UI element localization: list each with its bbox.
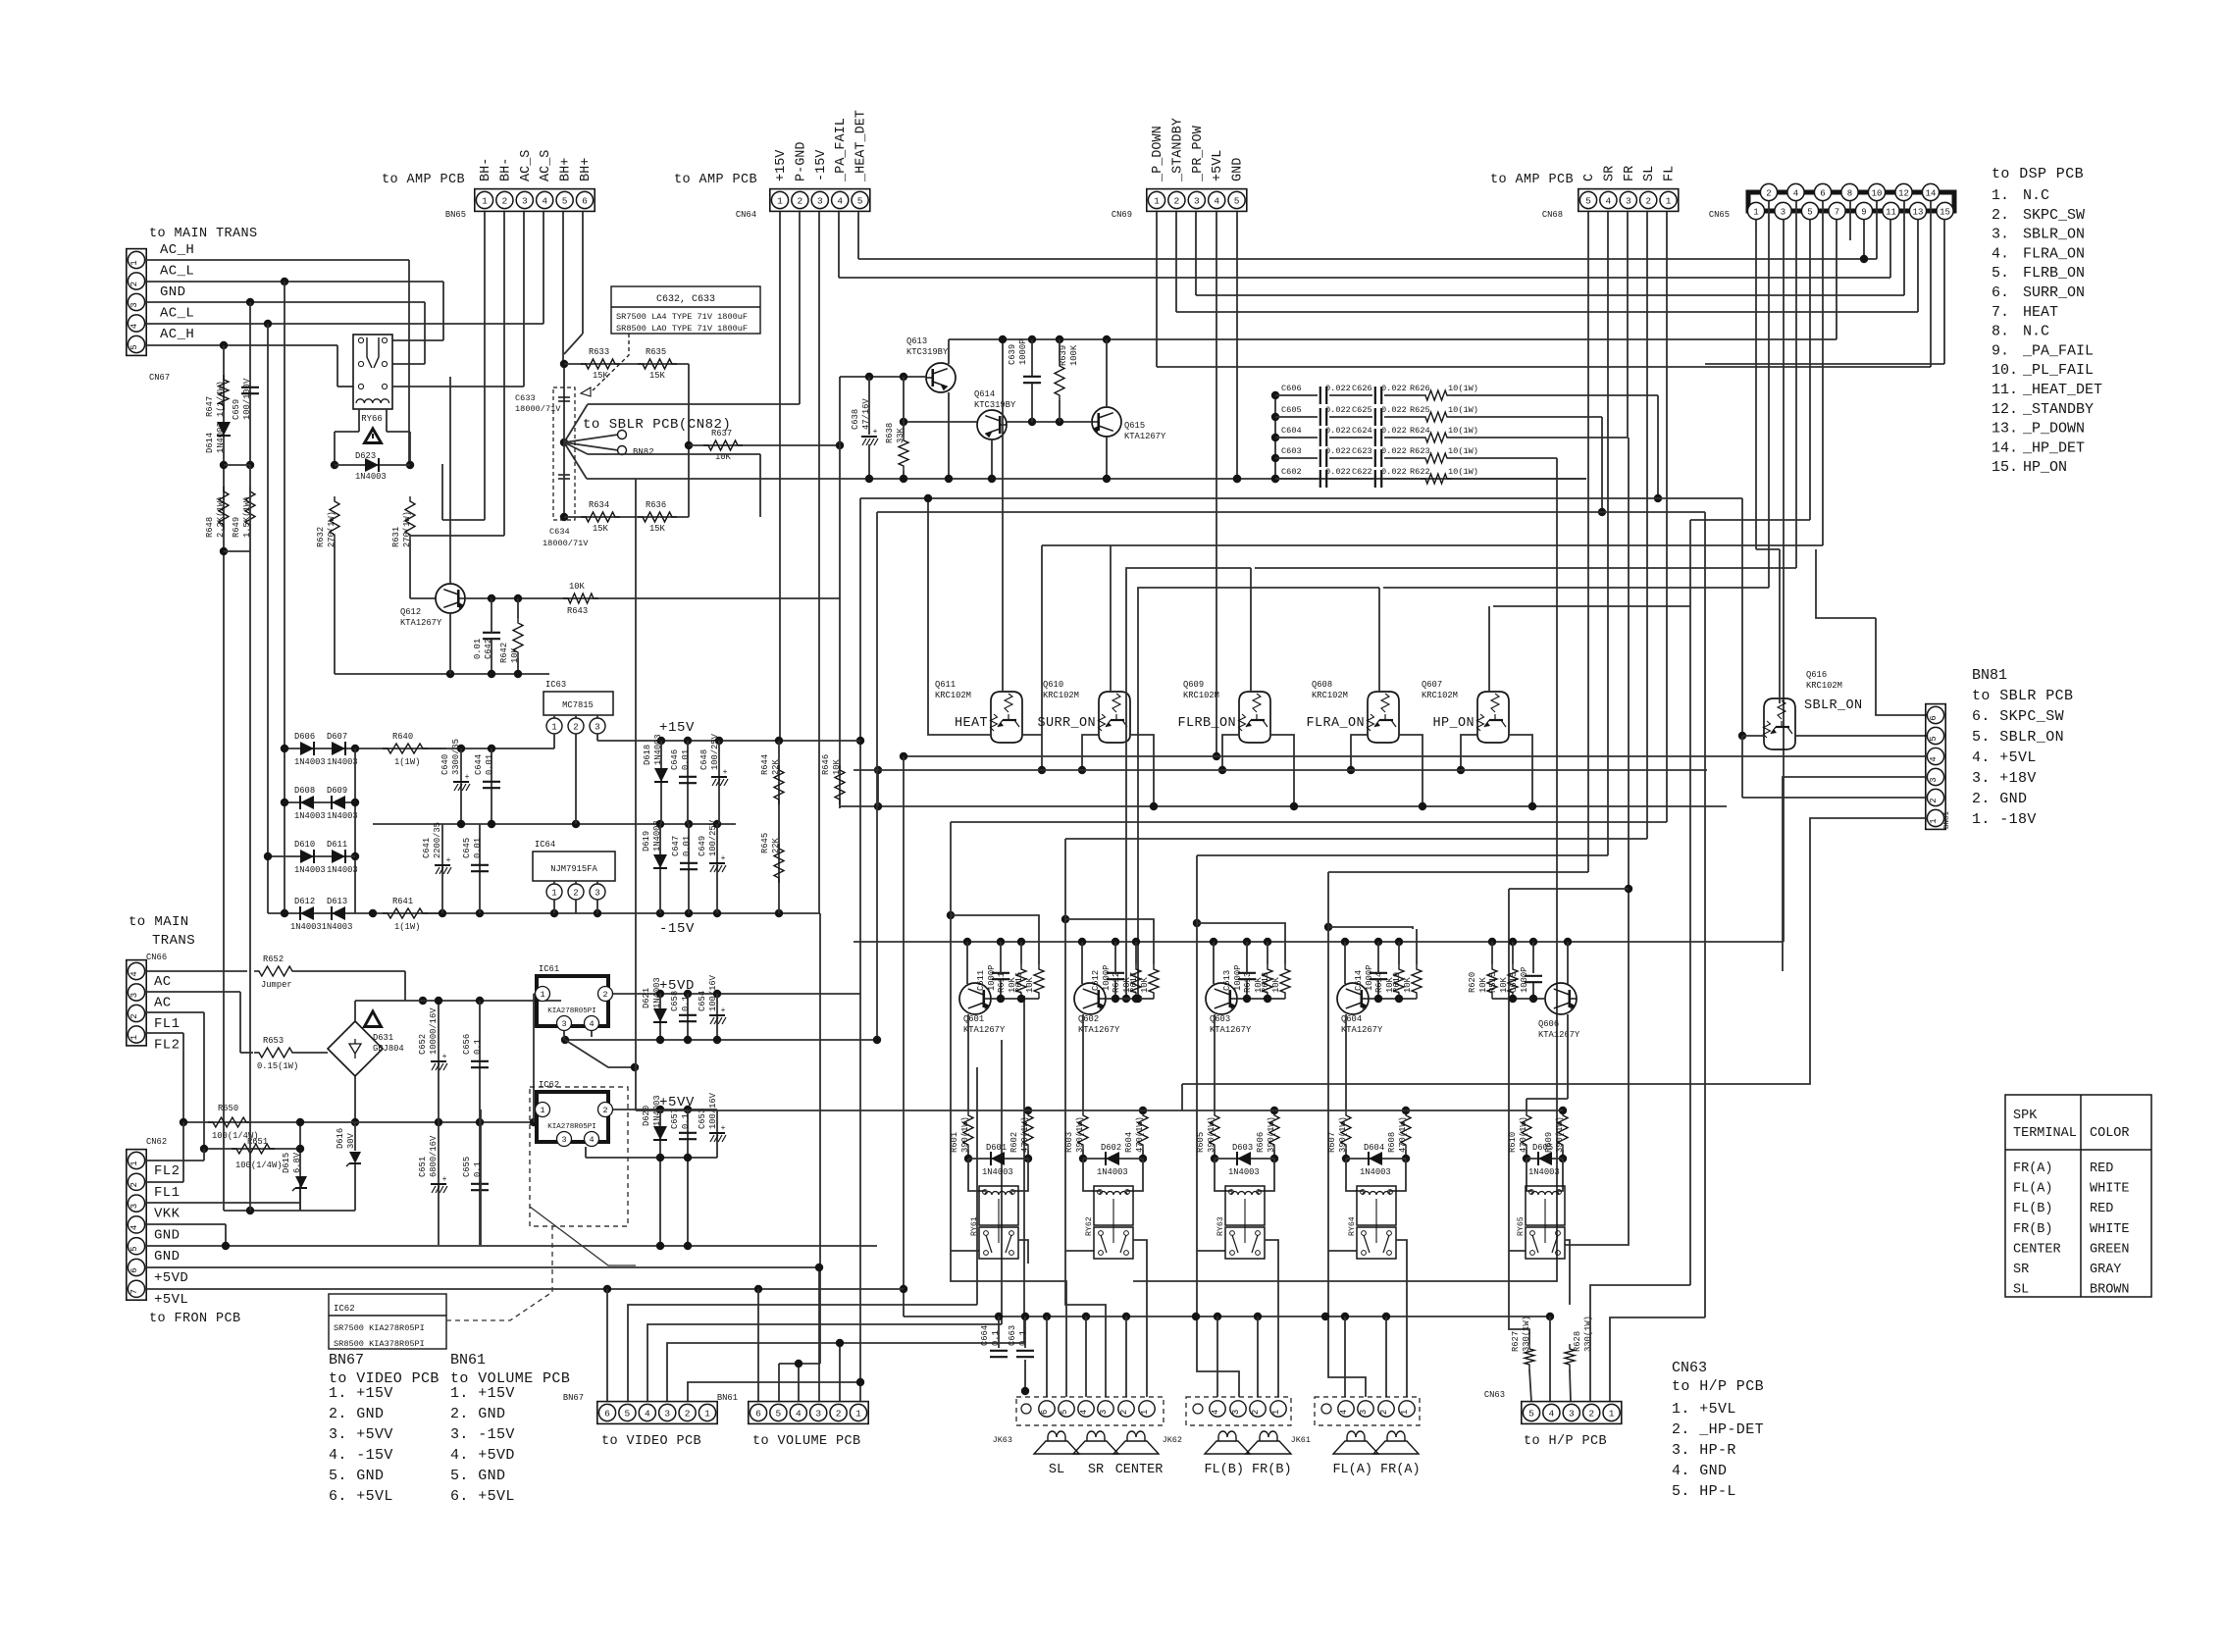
svg-text:7.: 7. <box>1992 304 2009 321</box>
svg-text:3. +5VV: 3. +5VV <box>329 1426 393 1443</box>
svg-text:SURR_ON: SURR_ON <box>1037 716 1096 731</box>
svg-text:22K: 22K <box>771 837 781 853</box>
svg-text:HP_ON: HP_ON <box>2023 459 2067 476</box>
svg-text:15: 15 <box>1940 207 1950 217</box>
svg-text:5: 5 <box>1585 195 1591 206</box>
svg-text:D615: D615 <box>282 1153 291 1173</box>
svg-text:C641: C641 <box>422 838 432 858</box>
svg-text:+5VL: +5VL <box>154 1292 188 1308</box>
svg-text:R643: R643 <box>567 606 588 616</box>
svg-text:10K: 10K <box>569 582 586 592</box>
svg-text:AC_H: AC_H <box>160 242 194 258</box>
svg-text:AC_S: AC_S <box>519 150 534 181</box>
svg-text:R624: R624 <box>1410 426 1430 436</box>
svg-text:WHITE: WHITE <box>2090 1222 2130 1237</box>
svg-text:D611: D611 <box>327 840 347 850</box>
svg-text:100/16V: 100/16V <box>708 974 718 1011</box>
svg-text:1.: 1. <box>1992 187 2009 204</box>
svg-text:+5VL: +5VL <box>1211 150 1225 181</box>
svg-text:SKPC_SW: SKPC_SW <box>2023 207 2085 224</box>
svg-text:3. HP-R: 3. HP-R <box>1672 1442 1736 1459</box>
svg-text:1: 1 <box>704 1408 710 1419</box>
svg-text:C606: C606 <box>1281 384 1302 393</box>
svg-text:6: 6 <box>129 1267 139 1272</box>
svg-text:C652: C652 <box>418 1034 428 1055</box>
svg-text:C605: C605 <box>1281 405 1302 415</box>
svg-text:CENTER: CENTER <box>1115 1463 1164 1477</box>
svg-text:0.022: 0.022 <box>1381 426 1407 436</box>
svg-text:FL1: FL1 <box>154 1185 180 1201</box>
svg-text:1: 1 <box>551 722 556 732</box>
svg-text:2: 2 <box>129 282 139 286</box>
svg-text:22K: 22K <box>771 758 781 775</box>
svg-text:_P_DOWN: _P_DOWN <box>1151 126 1165 182</box>
svg-text:RY63: RY63 <box>1216 1216 1225 1236</box>
svg-text:2: 2 <box>1379 1410 1389 1415</box>
svg-text:0.1: 0.1 <box>681 1113 691 1129</box>
svg-text:D613: D613 <box>327 897 347 906</box>
svg-text:15K: 15K <box>649 524 666 534</box>
svg-text:to MAIN TRANS: to MAIN TRANS <box>149 227 258 241</box>
svg-text:10K: 10K <box>1478 976 1488 993</box>
svg-text:1N4003: 1N4003 <box>1528 1167 1560 1177</box>
svg-text:0.1: 0.1 <box>473 1039 483 1055</box>
svg-text:C622: C622 <box>1352 467 1372 477</box>
svg-text:GND: GND <box>154 1249 180 1265</box>
svg-text:9.: 9. <box>1992 342 2009 359</box>
svg-text:C658: C658 <box>670 991 680 1011</box>
svg-text:R605: R605 <box>1196 1132 1206 1153</box>
svg-text:6.: 6. <box>1992 284 2009 301</box>
svg-text:Q609: Q609 <box>1183 680 1204 690</box>
svg-text:R633: R633 <box>589 347 609 357</box>
svg-text:+: + <box>721 1124 726 1133</box>
svg-text:1(1/4W): 1(1/4W) <box>216 381 226 417</box>
svg-text:to VIDEO PCB: to VIDEO PCB <box>601 1434 701 1449</box>
svg-text:IC62: IC62 <box>539 1080 559 1090</box>
svg-text:SR8500 LAO TYPE 71V 1800uF: SR8500 LAO TYPE 71V 1800uF <box>616 324 748 334</box>
svg-text:C647: C647 <box>671 836 681 856</box>
svg-text:10K: 10K <box>1271 976 1281 993</box>
svg-text:R628: R628 <box>1573 1331 1582 1352</box>
svg-text:6: 6 <box>755 1408 761 1419</box>
svg-text:1000P: 1000P <box>1233 965 1243 991</box>
svg-text:2: 2 <box>685 1408 691 1419</box>
svg-text:100K: 100K <box>1069 344 1079 366</box>
svg-text:100(1/4W): 100(1/4W) <box>235 1161 283 1170</box>
svg-text:KRC102M: KRC102M <box>1422 691 1458 700</box>
svg-text:4: 4 <box>129 1225 139 1230</box>
svg-text:R648: R648 <box>205 517 215 538</box>
svg-text:Q613: Q613 <box>906 336 927 346</box>
svg-text:1: 1 <box>855 1408 861 1419</box>
svg-text:2: 2 <box>798 195 803 206</box>
svg-text:2: 2 <box>602 1106 607 1115</box>
svg-text:R649: R649 <box>232 517 241 538</box>
svg-text:C611: C611 <box>976 970 986 991</box>
svg-text:FL(B) FR(B): FL(B) FR(B) <box>1204 1463 1291 1477</box>
svg-text:SL: SL <box>1049 1463 1064 1477</box>
svg-text:KTC319BY: KTC319BY <box>906 347 949 357</box>
svg-text:390(1W): 390(1W) <box>1555 1116 1565 1153</box>
svg-text:FLRB_ON: FLRB_ON <box>1177 716 1236 731</box>
svg-text:Q614: Q614 <box>974 389 995 399</box>
svg-text:SR7500 KIA278R05PI: SR7500 KIA278R05PI <box>334 1323 425 1333</box>
svg-text:3: 3 <box>1781 207 1785 217</box>
svg-text:1: 1 <box>1666 195 1672 206</box>
svg-text:GND: GND <box>154 1227 180 1243</box>
svg-text:-15V: -15V <box>659 921 695 937</box>
svg-text:SR8500 KIA378R05PI: SR8500 KIA378R05PI <box>334 1339 425 1349</box>
svg-text:390(1W): 390(1W) <box>1267 1116 1276 1153</box>
svg-text:SR: SR <box>1602 166 1617 181</box>
svg-text:6800/16V: 6800/16V <box>429 1135 439 1177</box>
svg-text:4: 4 <box>1079 1410 1089 1415</box>
svg-text:1. -18V: 1. -18V <box>1972 811 2037 828</box>
svg-text:to VOLUME PCB: to VOLUME PCB <box>752 1434 861 1449</box>
svg-text:R608: R608 <box>1387 1132 1397 1153</box>
svg-text:11: 11 <box>1886 207 1896 217</box>
svg-text:0.022: 0.022 <box>1381 384 1407 393</box>
svg-text:5: 5 <box>1528 1408 1534 1419</box>
svg-text:4: 4 <box>1793 188 1798 198</box>
svg-text:2: 2 <box>1645 195 1651 206</box>
svg-text:GND: GND <box>160 284 185 300</box>
svg-text:R613: R613 <box>1243 972 1253 993</box>
svg-text:4: 4 <box>1214 195 1219 206</box>
svg-text:1000P: 1000P <box>1018 339 1028 365</box>
svg-text:1: 1 <box>551 888 556 898</box>
svg-text:2. GND: 2. GND <box>329 1406 384 1422</box>
svg-text:5.: 5. <box>1992 265 2009 282</box>
svg-text:5: 5 <box>1234 195 1240 206</box>
svg-text:100/25V: 100/25V <box>708 819 718 856</box>
svg-text:R636: R636 <box>646 500 666 510</box>
svg-text:12: 12 <box>1898 188 1909 198</box>
svg-text:10(1W): 10(1W) <box>1448 467 1478 477</box>
svg-text:C614: C614 <box>1354 970 1364 991</box>
svg-text:0.01: 0.01 <box>473 838 483 858</box>
svg-text:1: 1 <box>129 1035 139 1040</box>
svg-text:+15V: +15V <box>659 720 695 736</box>
svg-text:10.: 10. <box>1992 362 2018 379</box>
svg-text:1: 1 <box>1929 818 1939 823</box>
svg-text:R604: R604 <box>1124 1132 1134 1153</box>
svg-text:0.022: 0.022 <box>1381 446 1407 456</box>
svg-text:3: 3 <box>1359 1410 1369 1415</box>
svg-text:D612: D612 <box>294 897 315 906</box>
svg-text:to FRON PCB: to FRON PCB <box>149 1312 241 1326</box>
svg-text:2: 2 <box>129 1013 139 1018</box>
svg-text:5: 5 <box>1060 1410 1069 1415</box>
svg-text:R616: R616 <box>1014 972 1024 993</box>
svg-text:CN65: CN65 <box>1709 210 1730 220</box>
svg-text:C639: C639 <box>1008 344 1017 365</box>
svg-text:AC_S: AC_S <box>539 150 553 181</box>
svg-text:2: 2 <box>502 195 508 206</box>
svg-text:SR7500 LA4 TYPE 71V 1800uF: SR7500 LA4 TYPE 71V 1800uF <box>616 312 748 322</box>
svg-text:2.2K(1W): 2.2K(1W) <box>216 496 226 538</box>
svg-text:+: + <box>873 428 878 437</box>
svg-text:470(1W): 470(1W) <box>1398 1116 1408 1153</box>
svg-text:BN81: BN81 <box>1943 810 1951 829</box>
svg-text:2. _HP-DET: 2. _HP-DET <box>1672 1421 1764 1438</box>
svg-text:BN81: BN81 <box>1972 667 2007 684</box>
svg-text:330(1W): 330(1W) <box>1583 1316 1593 1352</box>
svg-text:R632: R632 <box>316 527 326 547</box>
svg-text:VKK: VKK <box>154 1207 181 1222</box>
svg-text:1000P: 1000P <box>987 965 997 991</box>
svg-text:3300/35: 3300/35 <box>451 739 461 775</box>
svg-text:D618: D618 <box>643 745 652 765</box>
svg-text:C625: C625 <box>1352 405 1372 415</box>
svg-text:COLOR: COLOR <box>2090 1126 2130 1141</box>
svg-text:C602: C602 <box>1281 467 1302 477</box>
svg-text:FL(A): FL(A) <box>2013 1182 2053 1197</box>
svg-text:BN61: BN61 <box>450 1352 486 1368</box>
svg-text:R627: R627 <box>1511 1331 1521 1352</box>
svg-text:0.01: 0.01 <box>485 754 494 775</box>
svg-text:10(1W): 10(1W) <box>1448 405 1478 415</box>
svg-text:_HP_DET: _HP_DET <box>2022 439 2085 456</box>
svg-text:_P_DOWN: _P_DOWN <box>2022 421 2085 438</box>
svg-text:3: 3 <box>561 1135 566 1145</box>
svg-text:+: + <box>446 856 451 865</box>
svg-text:Q607: Q607 <box>1422 680 1442 690</box>
svg-text:10(1W): 10(1W) <box>1448 426 1478 436</box>
svg-text:SBLR_ON: SBLR_ON <box>1804 698 1863 713</box>
svg-text:SL: SL <box>1642 166 1657 181</box>
svg-text:5. GND: 5. GND <box>329 1468 384 1484</box>
svg-text:C646: C646 <box>670 749 680 770</box>
svg-text:3: 3 <box>561 1019 566 1029</box>
svg-text:1N4003: 1N4003 <box>327 811 358 821</box>
svg-text:FL1: FL1 <box>154 1016 180 1032</box>
svg-text:+: + <box>465 773 470 782</box>
svg-text:_HEAT_DET: _HEAT_DET <box>2022 382 2102 398</box>
svg-text:4: 4 <box>1211 1410 1220 1415</box>
svg-text:6: 6 <box>582 195 588 206</box>
svg-text:R622: R622 <box>1410 467 1430 477</box>
svg-text:to AMP PCB: to AMP PCB <box>674 173 757 187</box>
svg-text:6: 6 <box>604 1408 610 1419</box>
svg-text:+: + <box>721 1007 726 1015</box>
svg-text:7: 7 <box>129 1289 139 1294</box>
svg-text:D619: D619 <box>642 831 651 852</box>
svg-text:3: 3 <box>817 195 823 206</box>
svg-text:R645: R645 <box>760 833 770 853</box>
svg-text:14: 14 <box>1926 188 1937 198</box>
svg-text:C656: C656 <box>462 1034 472 1055</box>
svg-text:5: 5 <box>1807 207 1812 217</box>
svg-text:-15V: -15V <box>814 149 829 181</box>
svg-text:C648: C648 <box>699 749 709 770</box>
svg-text:CN63: CN63 <box>1484 1390 1505 1400</box>
svg-text:8: 8 <box>1847 188 1852 198</box>
svg-text:P-GND: P-GND <box>794 141 808 181</box>
svg-text:R646: R646 <box>821 754 831 775</box>
svg-text:RY66: RY66 <box>361 414 383 424</box>
svg-text:D610: D610 <box>294 840 315 850</box>
svg-text:RY64: RY64 <box>1348 1216 1357 1236</box>
svg-text:KTC319BY: KTC319BY <box>974 400 1016 410</box>
svg-text:KRC102M: KRC102M <box>935 691 971 700</box>
svg-text:+: + <box>442 1053 447 1061</box>
svg-text:C632, C633: C632, C633 <box>656 294 715 305</box>
svg-text:_PR_POW: _PR_POW <box>1191 125 1206 182</box>
svg-text:R612: R612 <box>1112 972 1121 993</box>
svg-text:3: 3 <box>522 195 528 206</box>
svg-text:BN61: BN61 <box>717 1393 738 1403</box>
svg-text:IC64: IC64 <box>535 840 555 850</box>
svg-text:R631: R631 <box>391 527 401 547</box>
svg-text:6: 6 <box>1040 1410 1050 1415</box>
svg-text:BH+: BH+ <box>559 158 574 181</box>
svg-text:1: 1 <box>1140 1410 1150 1415</box>
svg-text:Q608: Q608 <box>1312 680 1332 690</box>
svg-text:1: 1 <box>1400 1410 1410 1415</box>
svg-text:10: 10 <box>1872 188 1883 198</box>
svg-text:R515: R515 <box>1488 972 1498 993</box>
svg-text:0.022: 0.022 <box>1325 426 1351 436</box>
svg-text:C657: C657 <box>670 1109 680 1129</box>
svg-text:3: 3 <box>1099 1410 1109 1415</box>
svg-text:C623: C623 <box>1352 446 1372 456</box>
svg-text:5: 5 <box>129 344 139 349</box>
svg-text:C654: C654 <box>698 991 707 1011</box>
svg-text:D614: D614 <box>205 433 215 453</box>
svg-text:0.022: 0.022 <box>1325 467 1351 477</box>
svg-text:4: 4 <box>129 324 139 329</box>
svg-text:Q601: Q601 <box>963 1014 984 1024</box>
svg-text:1N4003: 1N4003 <box>1360 1167 1391 1177</box>
svg-text:Q615: Q615 <box>1124 421 1145 431</box>
svg-text:12.: 12. <box>1992 401 2018 418</box>
svg-text:15K: 15K <box>593 371 609 381</box>
svg-text:1000P: 1000P <box>1365 965 1374 991</box>
svg-text:+5VD: +5VD <box>154 1270 188 1286</box>
svg-text:BN67: BN67 <box>563 1393 584 1403</box>
svg-text:0.022: 0.022 <box>1381 467 1407 477</box>
svg-text:D608: D608 <box>294 786 315 796</box>
svg-text:10000/16V: 10000/16V <box>429 1007 439 1055</box>
svg-text:C626: C626 <box>1352 384 1372 393</box>
svg-text:390(1W): 390(1W) <box>1338 1116 1348 1153</box>
svg-text:1N4003: 1N4003 <box>216 422 226 453</box>
svg-text:4. -15V: 4. -15V <box>329 1447 393 1464</box>
svg-text:1. +5VL: 1. +5VL <box>1672 1401 1736 1418</box>
svg-text:C633: C633 <box>515 393 536 403</box>
svg-text:GRAY: GRAY <box>2090 1263 2121 1277</box>
svg-text:0.022: 0.022 <box>1381 405 1407 415</box>
svg-text:AC_L: AC_L <box>160 264 194 280</box>
svg-text:R635: R635 <box>646 347 666 357</box>
svg-text:1: 1 <box>1609 1408 1615 1419</box>
svg-text:to DSP PCB: to DSP PCB <box>1992 166 2084 182</box>
svg-text:_PL_FAIL: _PL_FAIL <box>2022 362 2094 379</box>
svg-text:R607: R607 <box>1327 1132 1337 1153</box>
svg-text:BH-: BH- <box>498 158 513 181</box>
svg-text:15.: 15. <box>1992 459 2018 476</box>
svg-text:C644: C644 <box>474 754 484 775</box>
svg-text:3: 3 <box>1626 195 1631 206</box>
svg-text:R617: R617 <box>1129 972 1139 993</box>
svg-text:D604: D604 <box>1364 1143 1384 1153</box>
svg-text:SL: SL <box>2013 1283 2029 1298</box>
svg-text:KRC102M: KRC102M <box>1183 691 1219 700</box>
svg-text:10K: 10K <box>1025 976 1035 993</box>
svg-text:JK61: JK61 <box>1291 1435 1311 1445</box>
svg-text:N.C: N.C <box>2023 187 2049 204</box>
svg-text:BN65: BN65 <box>445 210 466 220</box>
svg-text:CN68: CN68 <box>1542 210 1563 220</box>
svg-text:D602: D602 <box>1101 1143 1121 1153</box>
svg-text:4: 4 <box>1606 195 1612 206</box>
svg-text:100/100V: 100/100V <box>242 378 252 420</box>
svg-text:15K: 15K <box>593 524 609 534</box>
svg-text:3: 3 <box>129 1204 139 1209</box>
svg-text:CN69: CN69 <box>1112 210 1132 220</box>
svg-text:1N40031N4003: 1N40031N4003 <box>290 922 352 932</box>
svg-text:C604: C604 <box>1281 426 1302 436</box>
svg-text:0.15(1W): 0.15(1W) <box>257 1061 298 1071</box>
svg-text:1N4003: 1N4003 <box>355 472 387 482</box>
svg-text:IC63: IC63 <box>545 680 566 690</box>
svg-text:RED: RED <box>2090 1202 2113 1216</box>
svg-text:4. +5VD: 4. +5VD <box>450 1447 515 1464</box>
svg-text:390(1W): 390(1W) <box>1075 1116 1085 1153</box>
svg-text:6. SKPC_SW: 6. SKPC_SW <box>1972 708 2064 725</box>
svg-text:2: 2 <box>573 722 578 732</box>
svg-text:3. -15V: 3. -15V <box>450 1426 515 1443</box>
svg-text:BH-: BH- <box>479 158 493 181</box>
svg-text:C653: C653 <box>698 1109 707 1129</box>
svg-text:1N4003: 1N4003 <box>327 865 358 875</box>
svg-text:5. HP-L: 5. HP-L <box>1672 1483 1736 1500</box>
svg-text:FL2: FL2 <box>154 1038 180 1054</box>
svg-text:C640: C640 <box>440 754 450 775</box>
svg-text:R634: R634 <box>589 500 609 510</box>
svg-text:R638: R638 <box>885 423 895 443</box>
svg-text:14.: 14. <box>1992 439 2018 456</box>
svg-text:D609: D609 <box>327 786 347 796</box>
svg-text:Jumper: Jumper <box>261 980 292 990</box>
svg-text:to SBLR PCB(CN82): to SBLR PCB(CN82) <box>583 417 731 433</box>
svg-text:C615: C615 <box>1509 972 1519 993</box>
svg-text:5: 5 <box>625 1408 631 1419</box>
svg-text:2.: 2. <box>1992 207 2009 224</box>
svg-text:R644: R644 <box>760 754 770 775</box>
svg-text:390(1W): 390(1W) <box>1207 1116 1216 1153</box>
svg-text:C645: C645 <box>462 838 472 858</box>
svg-text:4: 4 <box>1339 1410 1349 1415</box>
svg-text:FL2: FL2 <box>154 1163 180 1179</box>
svg-text:D601: D601 <box>986 1143 1007 1153</box>
svg-text:2200/35: 2200/35 <box>433 822 442 858</box>
svg-text:BN67: BN67 <box>329 1352 364 1368</box>
svg-text:4. +5VL: 4. +5VL <box>1972 749 2037 766</box>
svg-text:HEAT: HEAT <box>955 716 988 731</box>
svg-text:1(1W): 1(1W) <box>394 922 420 932</box>
svg-text:1N4003: 1N4003 <box>652 977 662 1008</box>
svg-text:HP_ON: HP_ON <box>1432 716 1475 731</box>
svg-text:FL: FL <box>1663 166 1678 181</box>
svg-text:RY61: RY61 <box>970 1216 979 1236</box>
svg-text:1000P: 1000P <box>1102 965 1112 991</box>
svg-text:to AMP PCB: to AMP PCB <box>382 173 465 187</box>
svg-text:4: 4 <box>796 1408 802 1419</box>
svg-text:D605: D605 <box>1532 1143 1553 1153</box>
